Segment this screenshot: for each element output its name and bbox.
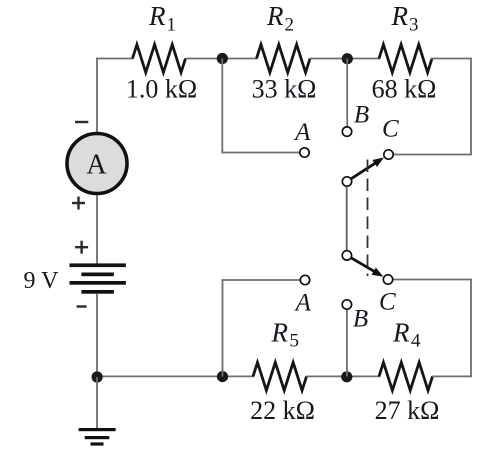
svg-text:2: 2	[285, 15, 295, 36]
svg-text:22 kΩ: 22 kΩ	[250, 396, 315, 425]
svg-text:1.0 kΩ: 1.0 kΩ	[126, 75, 197, 104]
label R4	[392, 318, 421, 352]
contact C bottom	[383, 275, 392, 284]
wire left rail upper (top rail to ammeter)	[96, 58, 98, 133]
svg-text:9 V: 9 V	[24, 268, 60, 294]
svg-text:R: R	[148, 1, 166, 31]
resistor R4	[379, 362, 433, 390]
wire right rail upper (top rail down to C top)	[470, 58, 472, 155]
switch SW2 pole (bottom)	[342, 251, 351, 260]
switch SW2 arm arrow to C	[352, 258, 384, 277]
svg-text:27 kΩ: 27 kΩ	[375, 396, 440, 425]
wire top rail segment right of R3	[431, 58, 471, 60]
wire right rail lower (C bottom down to bottom rail)	[470, 280, 472, 378]
wire bottom rail right segment	[432, 375, 471, 377]
label R3	[391, 1, 419, 36]
switch gang dashed link	[367, 160, 369, 277]
svg-text:B: B	[354, 102, 369, 129]
wire bottom rail middle segment	[306, 375, 380, 377]
svg-text:1: 1	[167, 15, 177, 36]
node bottom junction at x=347	[341, 371, 352, 382]
switch SW1 arm arrow to C	[351, 158, 384, 179]
node bottom junction at x=222	[217, 371, 228, 382]
ammeter A	[67, 134, 127, 194]
svg-text:B: B	[353, 306, 368, 333]
ammeter plus sign	[72, 197, 85, 210]
contact A bottom	[300, 275, 309, 284]
battery minus sign	[77, 305, 87, 307]
svg-text:C: C	[379, 289, 396, 316]
wire horizontal to contact A top	[221, 152, 299, 154]
wire top rail segment left of R1	[96, 58, 133, 60]
wire between switch poles	[346, 187, 348, 251]
contact B top	[342, 127, 351, 136]
wire ammeter to battery	[96, 195, 98, 265]
wire junction R1-R2 down to A top	[221, 59, 223, 153]
node junction R2-R3	[342, 53, 353, 64]
resistor R1	[133, 45, 186, 73]
svg-text:R: R	[392, 318, 410, 348]
svg-text:3: 3	[409, 15, 419, 36]
wire C bottom to right rail	[393, 279, 472, 281]
ground	[79, 377, 116, 446]
ammeter minus sign	[75, 121, 88, 123]
svg-text:R: R	[391, 1, 409, 31]
resistor R5	[253, 362, 307, 390]
contact B bottom	[342, 300, 351, 309]
node junction R1-R2	[217, 53, 228, 64]
label R1	[148, 1, 176, 36]
svg-text:5: 5	[290, 331, 300, 352]
contact C top	[384, 150, 393, 159]
svg-text:A: A	[294, 290, 312, 317]
svg-text:C: C	[382, 116, 399, 143]
svg-text:33 kΩ: 33 kΩ	[252, 75, 317, 104]
battery BT1 9 V	[70, 263, 126, 293]
label R5	[271, 318, 300, 352]
wire horizontal to contact A bottom	[222, 279, 301, 281]
label R2	[266, 1, 294, 36]
switch SW1 pole (top)	[342, 177, 351, 186]
battery plus sign	[75, 241, 88, 254]
wire contact B bottom down to bottom rail	[346, 309, 348, 376]
svg-text:R: R	[271, 318, 289, 348]
wire bottom junction up to A bottom	[222, 280, 224, 377]
contact A top	[300, 148, 309, 157]
wire top rail segment R2 to R3	[310, 58, 380, 60]
wire C top to right rail	[393, 154, 472, 156]
resistor R2	[257, 45, 311, 73]
svg-text:R: R	[266, 1, 284, 31]
resistor R3	[379, 45, 432, 73]
wire junction R2-R3 down to B top	[346, 59, 348, 128]
node bottom-left junction	[92, 371, 103, 382]
svg-text:4: 4	[411, 331, 421, 352]
wire top rail segment R1 to R2	[186, 58, 258, 60]
wire bottom rail left segment	[97, 375, 254, 377]
svg-text:A: A	[86, 150, 107, 181]
wire battery to bottom rail	[96, 294, 98, 377]
svg-text:A: A	[293, 119, 311, 146]
svg-text:68 kΩ: 68 kΩ	[372, 75, 437, 104]
